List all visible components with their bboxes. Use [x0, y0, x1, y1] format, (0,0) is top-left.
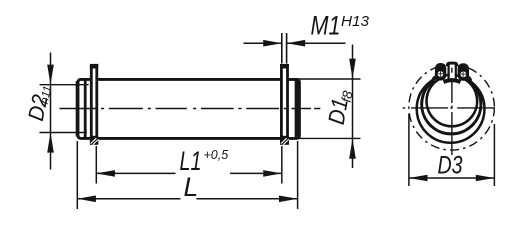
svg-text:+0,5: +0,5 — [204, 148, 229, 162]
svg-text:D3: D3 — [438, 152, 463, 180]
svg-text:L: L — [184, 172, 199, 202]
svg-text:H13: H13 — [341, 13, 370, 30]
svg-text:M1: M1 — [311, 11, 341, 41]
